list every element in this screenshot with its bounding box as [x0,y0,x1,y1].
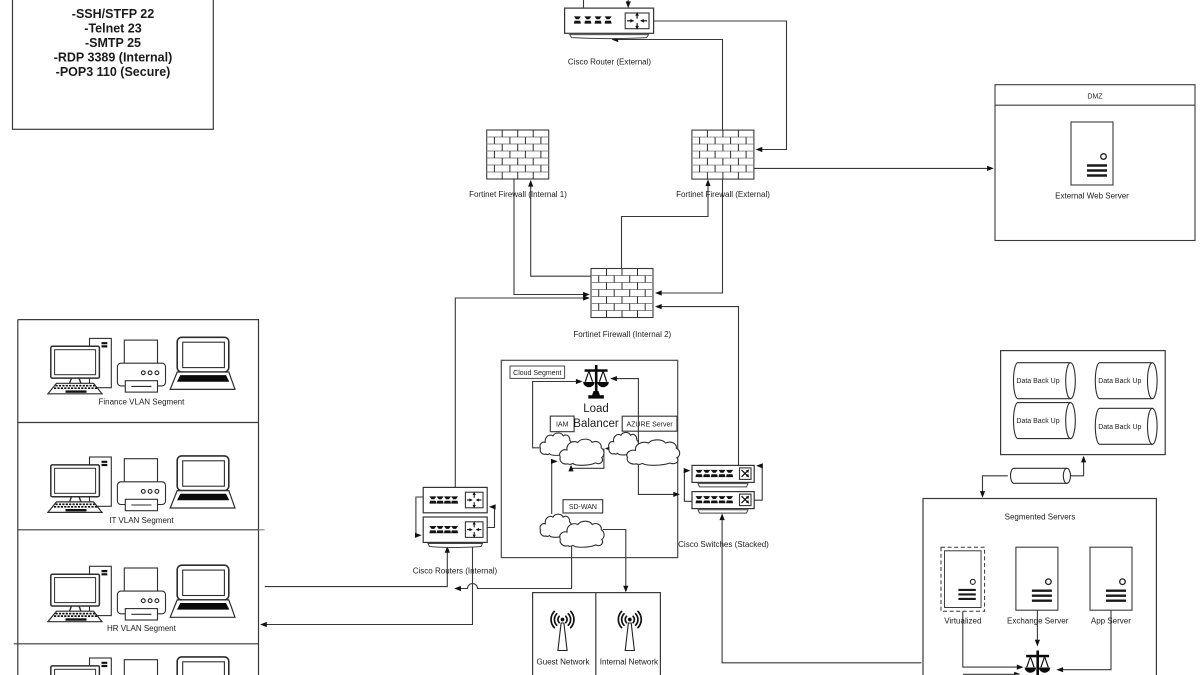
svg-text:-SSH/STFP 22: -SSH/STFP 22 [72,7,154,21]
wire pipe to data backup box [1071,458,1084,476]
Fortinet Firewall (Internal 2) [591,269,653,318]
svg-text:SD-WAN: SD-WAN [569,504,597,511]
SD-WAN cloud (front) [560,521,604,547]
svg-text:AZURE Server: AZURE Server [626,421,673,428]
arrow left into switches right loop [756,463,763,468]
wire into router top (plain) [583,0,585,8]
wire SD-WAN down-left to internal routers (with hop) [456,546,572,589]
wire virtualized server to scales [963,611,1022,667]
wire FW External to DMZ [754,167,991,169]
DMZ external web server [1071,122,1113,185]
port list text box [13,0,214,129]
arrow down into Internal Network top [623,586,628,593]
wire router bottom-left arrow, down through FW External to FW Internal 2 [614,40,723,294]
svg-text:External Web Server: External Web Server [1055,192,1129,201]
wire segmented servers box to switches bottom arrow [722,516,921,663]
wire internal routers up to FW2 left [455,298,587,487]
arrow up into data backup box [1081,456,1086,463]
svg-text:Virtualized: Virtualized [944,617,981,626]
svg-text:Finance VLAN Segment: Finance VLAN Segment [98,397,185,406]
arrow right into load balancer left [576,379,583,384]
svg-text:IT VLAN Segment: IT VLAN Segment [109,516,174,525]
arrow up into FW External bottom [705,179,710,186]
wire internal routers down-left to VLAN container [262,541,473,625]
Cisco switch (bottom) [692,492,754,513]
arrow up into internal routers bottom [445,546,450,553]
wire FW2 top to FW External bottom [622,182,709,269]
arrow right into FW2 left (lower) [583,295,590,300]
Cisco switch (top) [692,465,754,487]
svg-text:Cloud Segment: Cloud Segment [513,370,561,377]
arrow left into central cloud right [605,446,612,451]
arrow left into FW2 right (lower) [655,304,662,309]
svg-text:Data Back Up: Data Back Up [1098,378,1141,385]
app server [1090,547,1132,610]
wire internal routers left loop [416,497,423,535]
virtualized server dashed outline [941,547,985,611]
Guest / Internal network container [533,593,661,675]
arrow left toward routers from SD-WAN [454,586,461,591]
svg-text:HR VLAN Segment: HR VLAN Segment [107,624,177,633]
VLAN segments container [14,320,265,675]
svg-text:Internal Network: Internal Network [600,658,659,667]
wire central cloud loop below [571,449,604,469]
IAM label box [550,416,574,432]
arrow left into internal routers right loop [489,504,496,509]
svg-text:Cisco Switches (Stacked): Cisco Switches (Stacked) [678,540,769,549]
data cylinder bottom-left [1014,403,1076,439]
internal routers base shadow [428,544,483,548]
arrow right into switches left loop [684,468,691,473]
DMZ container [995,85,1195,241]
wire FW2 right to stacked switches [658,307,739,466]
arrow up into FW1 bottom [528,180,533,187]
Segmented Servers container [923,499,1156,675]
arrow left into bottom scales right [1056,667,1063,672]
svg-text:Exchange Server: Exchange Server [1007,617,1069,626]
arrow left into FW2 right (upper) [655,290,662,295]
wire switches left loop [684,471,692,502]
Cisco Router (External) [565,8,654,38]
wire FW1 bottom down to FW2 left [514,179,588,295]
Cisco Routers (Internal) bottom [423,517,487,542]
svg-text:Load: Load [583,403,609,415]
svg-text:Fortinet Firewall (Internal 2): Fortinet Firewall (Internal 2) [573,330,671,339]
AZURE Server label box [622,416,677,431]
pipe connector [1011,468,1071,483]
arrow up into central cloud bottom [568,465,573,472]
svg-text:-Telnet 23: -Telnet 23 [84,22,141,36]
data cylinder bottom-right [1095,408,1157,444]
wire SD-WAN right to Internal Network [603,530,626,591]
Fortinet Firewall (Internal 1) [487,130,549,179]
arrow right into internal routers left loop [415,533,422,538]
wire VLAN container to internal routers bottom arrow [265,548,448,587]
Guest network wifi [551,611,574,650]
svg-text:Data Back Up: Data Back Up [1016,378,1059,385]
svg-text:Cisco Routers (Internal): Cisco Routers (Internal) [413,567,498,576]
arrow right into bottom scales left [1017,665,1024,670]
svg-text:Fortinet Firewall (External): Fortinet Firewall (External) [676,190,770,199]
Data Back Up container [1001,351,1166,455]
virtualized server [945,551,982,608]
AZURE cloud (front) [627,440,680,465]
svg-text:Cisco Router (External): Cisco Router (External) [568,58,651,67]
svg-text:DMZ: DMZ [1087,94,1103,101]
svg-text:-RDP 3389 (Internal): -RDP 3389 (Internal) [54,51,173,65]
AZURE cloud (back) [609,432,639,455]
svg-text:Balancer: Balancer [573,418,619,430]
wire router right to FW External right [653,21,786,150]
svg-text:Data Back Up: Data Back Up [1098,424,1141,431]
finance vlan icons [48,337,235,394]
data cylinder top-right [1095,363,1157,399]
arrow left into VLAN container (lower) [260,622,267,627]
wire into router top with arrow [627,0,629,2]
arrow right into central cloud lower-left [551,459,558,464]
4th vlan icons (clipped) [48,657,235,675]
IAM cloud (back) [540,433,572,455]
svg-text:Guest Network: Guest Network [537,658,591,667]
arrow right bottom edge extra [1014,672,1021,675]
svg-text:-SMTP 25: -SMTP 25 [85,36,141,50]
central cloud (front) [560,439,604,465]
wire app server to scales [1059,611,1112,670]
arrow right at cloud box edge toward switches [673,492,680,497]
Internal network wifi [618,611,641,650]
arrow right into FW2 left (upper) [583,292,590,297]
svg-text:IAM: IAM [556,422,569,429]
arrow left into load balancer right [610,376,617,381]
svg-text:Data Back Up: Data Back Up [1016,418,1059,425]
wire azure cloud to central cloud arrow [607,448,623,450]
wire SD-WAN up to central cloud [552,461,556,514]
arrow left into FW External right [756,147,763,152]
wire bottom edge extra connector [963,673,1014,675]
arrow right into DMZ [987,166,994,171]
Cisco Routers (Internal) top [423,487,487,512]
svg-text:Fortinet Firewall (Internal 1): Fortinet Firewall (Internal 1) [469,190,567,199]
exchange server [1016,547,1058,610]
wire switches right loop [754,466,762,500]
arrow down into router top [626,1,631,8]
SD-WAN cloud (back) [540,514,572,537]
Cloud Segment label box [510,366,565,378]
arrow left into router base [612,37,619,42]
SD-WAN label box [563,500,603,513]
svg-text:App Server: App Server [1091,617,1131,626]
wire exchange server to scales [1036,611,1038,645]
load balancer scales [583,365,609,399]
wire load balancer right to azure / down to box edge arrow [612,379,678,495]
svg-text:Segmented Servers: Segmented Servers [1005,513,1076,522]
arrow up into switches bottom [720,513,725,520]
wire IAM cloud to load balancer [533,382,581,448]
hr vlan icons [48,565,235,622]
arrow down into bottom scales [1035,640,1040,647]
it vlan icons [48,456,235,513]
wire FW2 left to FW1 bottom arrow [531,182,591,276]
data cylinder top-left [1014,363,1076,399]
svg-text:-POP3 110 (Secure): -POP3 110 (Secure) [56,65,171,79]
bottom scales [1025,651,1051,675]
arrow down into segmented servers box [980,491,985,498]
Cloud Segment container [501,360,677,557]
wire pipe to segmented servers box [983,476,1008,497]
wire internal routers right loop [487,507,494,528]
Fortinet Firewall (External) [692,130,754,179]
